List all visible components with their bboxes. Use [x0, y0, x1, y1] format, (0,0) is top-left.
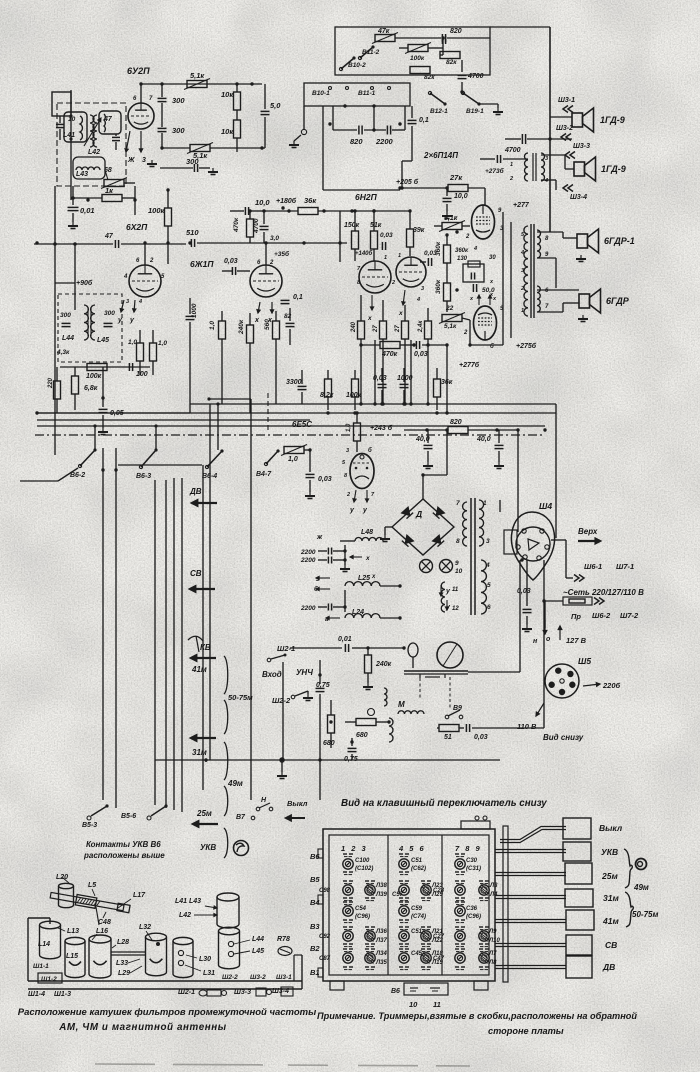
capacitor 300 b: [158, 127, 167, 129]
svg-text:В7: В7: [236, 814, 246, 821]
svg-text:40,0: 40,0: [476, 436, 491, 443]
svg-text:Ш7-2: Ш7-2: [620, 611, 639, 620]
scan artifact line: [95, 1064, 470, 1066]
resistor 10k lower: [234, 120, 241, 138]
svg-text:3: 3: [521, 268, 524, 274]
svg-text:240к: 240к: [375, 661, 392, 668]
svg-text:+243 б: +243 б: [370, 424, 393, 432]
svg-text:КВ: КВ: [200, 643, 211, 652]
tie bar: [111, 951, 145, 953]
svg-text:В6: В6: [391, 988, 400, 995]
svg-text:+35б: +35б: [274, 250, 290, 258]
svg-text:СВ: СВ: [190, 569, 202, 578]
svg-text:300: 300: [172, 96, 185, 105]
platform: [404, 670, 468, 672]
key 25m: [565, 863, 592, 884]
svg-text:5,0: 5,0: [270, 101, 281, 110]
svg-text:41м: 41м: [191, 665, 207, 674]
svg-text:ДВ: ДВ: [189, 487, 202, 496]
dial lamps: [420, 560, 433, 573]
svg-text:L43: L43: [76, 171, 88, 178]
svg-text:47: 47: [104, 233, 114, 240]
wire B7: [308, 800, 320, 812]
ferrite rod antenna: [50, 890, 131, 914]
wires to speakers 1-2: [550, 112, 572, 114]
svg-text:Верх: Верх: [578, 527, 598, 536]
svg-text:470к: 470к: [233, 217, 240, 233]
svg-text:С47: С47: [433, 956, 445, 962]
svg-text:С36: С36: [466, 906, 478, 912]
svg-text:0,01: 0,01: [80, 206, 95, 215]
resistor 150k: [352, 231, 359, 249]
svg-text:х: х: [367, 315, 372, 322]
svg-text:150к: 150к: [344, 222, 360, 229]
svg-text:Ш3-2: Ш3-2: [250, 974, 266, 981]
svg-text:0,03: 0,03: [318, 476, 332, 483]
svg-text:В12-1: В12-1: [430, 108, 448, 115]
svg-text:L42: L42: [88, 149, 100, 156]
dashed link: [419, 678, 421, 700]
resistor 47k: [375, 35, 395, 42]
svg-text:5,1к: 5,1к: [444, 323, 457, 330]
capacitor 0.03 e: [465, 724, 467, 732]
svg-text:(С62): (С62): [411, 866, 426, 872]
svg-text:2: 2: [149, 258, 154, 264]
svg-text:22: 22: [445, 305, 454, 312]
svg-text:УКВ: УКВ: [200, 843, 216, 852]
svg-text:9: 9: [455, 560, 459, 567]
svg-text:М: М: [398, 700, 405, 709]
svg-text:В2: В2: [310, 944, 320, 953]
svg-text:3: 3: [545, 156, 548, 162]
primary winding 7-8: [463, 502, 467, 546]
svg-text:6ГДР: 6ГДР: [606, 296, 630, 306]
svg-text:L44: L44: [252, 936, 264, 943]
svg-text:+140б: +140б: [355, 250, 373, 257]
wires lower left: [37, 412, 190, 414]
switch B9: [445, 715, 449, 719]
bottom levers B5-6: [147, 816, 151, 820]
winding y11 y12: [441, 582, 445, 612]
svg-text:2,4к: 2,4к: [418, 320, 424, 333]
svg-text:0,03: 0,03: [517, 588, 531, 595]
svg-text:L42: L42: [179, 912, 191, 919]
wire left edge: [54, 186, 56, 455]
svg-text:1: 1: [398, 253, 401, 259]
svg-text:АМ, ЧМ и магнитной антенны: АМ, ЧМ и магнитной антенны: [58, 1022, 227, 1033]
svg-text:R78: R78: [277, 936, 290, 943]
speaker Gr4 6GDR: [579, 294, 590, 308]
svg-text:ДВ: ДВ: [602, 962, 615, 972]
svg-text:L41 L43: L41 L43: [175, 898, 201, 905]
svg-text:Ш2-1: Ш2-1: [178, 989, 195, 996]
svg-text:510: 510: [186, 228, 199, 237]
resistor 100k c: [352, 379, 359, 397]
svg-text:130: 130: [457, 256, 468, 262]
svg-text:11: 11: [433, 1000, 441, 1009]
svg-text:Ш3-2: Ш3-2: [556, 125, 573, 132]
svg-text:В6-3: В6-3: [136, 473, 151, 480]
pickup arm: [408, 643, 418, 657]
antenna terminal rect: [52, 92, 71, 116]
svg-text:(С96): (С96): [355, 914, 370, 920]
resistor 6.8k: [72, 376, 79, 394]
capacitor 820 mid: [332, 106, 334, 130]
capacitor 5.0: [261, 110, 270, 112]
svg-text:В6-2: В6-2: [70, 472, 85, 479]
svg-text:х: х: [371, 574, 376, 580]
long rails: [190, 403, 556, 405]
power transformer core: [470, 498, 472, 615]
svg-text:1000: 1000: [191, 303, 198, 318]
V3 cathode arrows: [258, 302, 260, 313]
switch row link wire: [118, 464, 202, 466]
resistor 820 rail: [448, 427, 468, 434]
wires to output transformer: [503, 223, 529, 225]
resistor 27k: [448, 185, 468, 192]
svg-text:220б: 220б: [602, 681, 621, 690]
main output transformer: [530, 224, 532, 318]
tube V1 cathode leads: [126, 131, 130, 152]
V5 cathode: [403, 290, 405, 305]
svg-text:0,03: 0,03: [414, 351, 428, 358]
capacitor 4700 right: [461, 60, 463, 72]
svg-text:2: 2: [391, 280, 395, 286]
capacitor 4700 v: [260, 225, 269, 227]
svg-text:В10-2: В10-2: [348, 62, 366, 69]
svg-text:Ш1-3: Ш1-3: [54, 991, 71, 998]
svg-text:2200: 2200: [300, 557, 316, 564]
svg-text:L28: L28: [117, 939, 129, 946]
svg-text:+205 б: +205 б: [396, 178, 419, 186]
wire platform right: [468, 671, 520, 673]
svg-text:L30: L30: [199, 956, 211, 963]
resistor 8.2k: [325, 379, 332, 397]
svg-text:(С102): (С102): [355, 866, 373, 872]
wire top right down: [549, 27, 551, 232]
indicator tube 6E5S: [354, 423, 361, 441]
coil can L44-45 lower: [219, 927, 240, 935]
svg-text:51: 51: [444, 734, 452, 741]
resistor 68: [104, 180, 124, 187]
svg-text:4: 4: [520, 250, 524, 256]
svg-text:С51: С51: [411, 858, 423, 864]
speaker Gr1 1GD-9: [572, 113, 583, 127]
switch box B10 B11: [335, 27, 490, 75]
svg-text:б: б: [490, 343, 494, 350]
rail verticals: [374, 340, 376, 404]
svg-text:6Х2П: 6Х2П: [126, 222, 148, 232]
svg-text:Ш1-1: Ш1-1: [33, 963, 49, 970]
svg-text:100: 100: [136, 371, 148, 378]
svg-text:300: 300: [60, 312, 71, 319]
svg-text:2200: 2200: [300, 549, 316, 556]
svg-text:L44: L44: [62, 335, 74, 342]
svg-text:300: 300: [172, 126, 185, 135]
resistor 100k b: [60, 366, 150, 368]
capacitor 820 top: [441, 34, 443, 42]
wire 320 down: [319, 760, 321, 800]
svg-text:о: о: [546, 636, 551, 643]
transformer L42: [90, 115, 94, 147]
svg-text:11: 11: [452, 587, 459, 593]
resistor 51: [424, 713, 437, 715]
svg-text:1: 1: [521, 308, 524, 314]
svg-text:1к: 1к: [105, 186, 114, 195]
bracket 50-75: [224, 656, 228, 694]
svg-text:2: 2: [463, 330, 468, 336]
switch B12-1: [428, 91, 431, 94]
svg-text:Вид снизу: Вид снизу: [543, 733, 584, 742]
wire fuse down: [544, 601, 546, 628]
svg-text:2: 2: [509, 176, 513, 182]
svg-text:4: 4: [123, 274, 128, 280]
svg-text:49м: 49м: [633, 883, 649, 892]
wire Sh4 to Sh6: [551, 539, 566, 541]
svg-text:1: 1: [483, 500, 487, 507]
svg-text:Ш4: Ш4: [539, 501, 552, 511]
svg-text:27к: 27к: [449, 173, 463, 182]
svg-text:L16: L16: [96, 928, 108, 935]
switch B11-2: [358, 56, 361, 59]
chassis outline: [27, 918, 29, 981]
svg-text:расположены выше: расположены выше: [83, 851, 165, 860]
tube V4 6N2P-a: [359, 261, 391, 293]
svg-text:С30: С30: [466, 858, 478, 864]
svg-text:(С74): (С74): [411, 914, 426, 920]
svg-text:6,8к: 6,8к: [84, 385, 98, 392]
svg-text:3: 3: [346, 448, 349, 454]
svg-text:1: 1: [510, 162, 513, 168]
svg-text:100к: 100к: [148, 206, 166, 215]
vertical strip: [503, 826, 508, 982]
svg-text:4,3к: 4,3к: [56, 349, 70, 356]
key DV: [566, 956, 592, 978]
svg-text:(С96): (С96): [466, 914, 481, 920]
capacitor 300 c: [193, 164, 195, 172]
svg-text:C48: C48: [98, 919, 111, 926]
band 31m: [191, 737, 216, 739]
svg-text:0,1: 0,1: [419, 117, 429, 124]
svg-text:L48: L48: [361, 529, 373, 536]
svg-text:110 В: 110 В: [517, 722, 537, 731]
key 31m: [565, 889, 593, 907]
svg-text:3: 3: [421, 286, 424, 292]
resistor 560: [273, 321, 280, 339]
svg-text:50,0: 50,0: [482, 287, 495, 294]
svg-text:С51: С51: [411, 929, 423, 935]
svg-text:В4: В4: [310, 898, 320, 907]
svg-text:3: 3: [126, 299, 129, 305]
rail y760: [155, 759, 500, 761]
svg-text:6Ж1П: 6Ж1П: [190, 259, 214, 269]
svg-text:7 8 9: 7 8 9: [455, 844, 482, 853]
bridge ground: [385, 526, 392, 528]
svg-text:Ш3-3: Ш3-3: [234, 989, 251, 996]
svg-text:2×6П14П: 2×6П14П: [423, 151, 458, 160]
left tabs: [318, 849, 323, 858]
svg-text:3: 3: [486, 538, 490, 545]
svg-text:4: 4: [473, 246, 477, 252]
svg-text:0,1: 0,1: [293, 294, 303, 301]
svg-text:2: 2: [346, 492, 350, 498]
svg-text:С45: С45: [411, 951, 423, 957]
speaker Sh3-4 label: [568, 185, 573, 192]
svg-text:б: б: [368, 447, 372, 454]
top protrusion: [461, 821, 490, 829]
capacitor 0.03 fb: [415, 341, 417, 349]
speaker Gr2 1GD-9: [574, 162, 585, 176]
switch B6-3: [139, 465, 142, 468]
svg-text:Контакты УКВ В6: Контакты УКВ В6: [86, 840, 161, 849]
svg-text:82к: 82к: [446, 59, 457, 66]
key Vykl: [563, 818, 591, 839]
svg-text:1ГД-9: 1ГД-9: [600, 115, 625, 125]
resistor 240k: [247, 325, 254, 343]
svg-text:L5: L5: [88, 882, 96, 889]
svg-text:L15: L15: [66, 953, 78, 960]
svg-text:+277б: +277б: [459, 361, 480, 369]
svg-text:L33: L33: [116, 960, 128, 967]
svg-text:0,03: 0,03: [224, 258, 238, 265]
svg-text:L32: L32: [139, 924, 151, 931]
Sh5 110V arrow: [536, 703, 544, 716]
svg-text:С87: С87: [319, 956, 331, 962]
svg-text:+273б: +273б: [485, 167, 505, 175]
switch B19-1: [461, 91, 464, 94]
svg-text:0,03: 0,03: [380, 232, 393, 239]
svg-text:240к: 240к: [238, 319, 245, 335]
svg-text:Ш7-1: Ш7-1: [616, 562, 634, 571]
secondary 1-3: [479, 500, 484, 546]
svg-text:240: 240: [351, 321, 357, 333]
svg-text:49м: 49м: [227, 779, 243, 788]
brace 49m: [624, 849, 632, 888]
wire: [250, 82, 253, 85]
svg-text:С57: С57: [392, 892, 404, 898]
svg-text:2: 2: [269, 260, 274, 266]
bottom feet: [330, 981, 344, 990]
switch B6-4: [205, 465, 208, 468]
svg-text:L14: L14: [38, 941, 50, 948]
svg-text:470к: 470к: [381, 351, 398, 358]
svg-text:L17: L17: [133, 892, 146, 899]
capacitor cap tank: [112, 136, 120, 138]
turntable circle: [437, 642, 463, 668]
plate bus verticals: [502, 212, 504, 345]
resistor 1.0 d: [284, 447, 304, 454]
svg-text:С27: С27: [433, 934, 445, 940]
resistor 470k: [247, 219, 254, 237]
svg-text:360к: 360к: [435, 279, 442, 294]
svg-text:12: 12: [452, 606, 459, 612]
brace 50-75m: [625, 892, 633, 927]
svg-text:С59: С59: [411, 906, 423, 912]
svg-text:Ш5: Ш5: [578, 656, 591, 666]
svg-text:Выкл: Выкл: [287, 799, 308, 808]
svg-text:(С31): (С31): [466, 866, 481, 872]
svg-text:В9: В9: [453, 705, 462, 712]
svg-text:Л34: Л34: [375, 951, 387, 957]
V8 cathode arrows up: [478, 295, 480, 305]
hole circle: [636, 859, 647, 870]
svg-text:В5: В5: [310, 875, 320, 884]
wire top to speakers: [490, 26, 550, 28]
capacitor 0.03 b: [427, 258, 429, 266]
svg-text:0,03: 0,03: [474, 734, 488, 741]
svg-text:7: 7: [456, 500, 460, 507]
svg-text:10к: 10к: [221, 127, 234, 136]
connector marks base: [199, 990, 207, 996]
interstage box: [463, 264, 484, 282]
svg-text:560: 560: [264, 319, 271, 330]
divider 1: [387, 835, 389, 975]
svg-text:6У2П: 6У2П: [127, 66, 150, 76]
svg-text:127 В: 127 В: [566, 636, 587, 645]
svg-text:31м: 31м: [603, 893, 619, 903]
svg-text:С28: С28: [433, 888, 445, 894]
svg-text:Ж: Ж: [127, 157, 135, 164]
svg-text:51к: 51к: [370, 222, 382, 229]
svg-text:Ш3-1: Ш3-1: [558, 97, 575, 104]
svg-text:360к: 360к: [435, 241, 442, 256]
svg-text:1: 1: [384, 255, 387, 261]
key UKV: [563, 842, 591, 861]
svg-text:С100: С100: [355, 858, 370, 864]
svg-text:5,1к: 5,1к: [190, 71, 205, 80]
resistor 1k: [102, 195, 122, 202]
rectifier bridge D: [392, 499, 454, 555]
svg-text:Л7: Л7: [488, 951, 497, 957]
svg-text:50-75м: 50-75м: [228, 693, 253, 702]
svg-text:Л38: Л38: [375, 883, 387, 889]
svg-text:Л9: Л9: [488, 929, 497, 935]
svg-text:~Сеть 220/127/110 В: ~Сеть 220/127/110 В: [563, 588, 644, 597]
coil 47 box: [99, 111, 121, 134]
resistor 51k: [371, 231, 378, 249]
resistor 5.1k: [187, 81, 207, 88]
svg-text:2: 2: [520, 286, 524, 292]
V2 cathode arrows: [121, 300, 124, 312]
svg-text:1,0: 1,0: [209, 321, 216, 330]
resistor 360k b: [444, 283, 451, 301]
svg-text:Выкл: Выкл: [599, 823, 623, 833]
svg-text:25м: 25м: [601, 871, 618, 881]
key rods: [500, 830, 566, 843]
dashed box 2: [58, 294, 122, 362]
capacitor 100: [128, 363, 130, 371]
svg-text:В4-7: В4-7: [256, 471, 272, 478]
svg-text:6Н2П: 6Н2П: [355, 192, 378, 202]
svg-text:L13: L13: [67, 928, 79, 935]
svg-text:L25: L25: [358, 575, 370, 582]
svg-text:Л36: Л36: [375, 929, 387, 935]
coil can L15: [65, 937, 85, 944]
svg-text:31м: 31м: [192, 748, 207, 757]
svg-text:L29: L29: [118, 970, 130, 977]
svg-text:Л35: Л35: [375, 960, 387, 966]
svg-text:30: 30: [489, 255, 496, 261]
svg-text:Ш6-2: Ш6-2: [592, 611, 611, 620]
capacitor 0.01: [72, 186, 74, 205]
resistor 5.1k to out tube: [442, 223, 462, 230]
trimmer grid: [343, 853, 347, 855]
wire left terminal: [303, 106, 305, 130]
svg-text:С92: С92: [319, 934, 331, 940]
svg-text:1,0: 1,0: [346, 423, 352, 432]
svg-text:300: 300: [186, 157, 199, 166]
svg-text:10: 10: [409, 1000, 418, 1009]
